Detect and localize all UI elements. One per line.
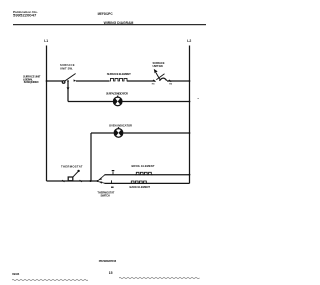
wire indicator tap drop xyxy=(67,81,69,102)
pin H2 tick xyxy=(169,80,172,82)
wire surface indicator row right xyxy=(122,101,190,103)
switch surface unit sw (right) blade with arrowhead xyxy=(156,73,160,80)
switch surface unit sw (right) crossing blade xyxy=(156,74,164,80)
svg-text:SURFACE: SURFACE xyxy=(60,63,75,67)
svg-text:BAKE ELEMENT: BAKE ELEMENT xyxy=(130,185,151,189)
wire oven indicator drop to thermostat row xyxy=(90,133,92,181)
svg-text:OVEN INDICATOR: OVEN INDICATOR xyxy=(109,123,132,127)
junction at L1 and surface row xyxy=(46,80,48,82)
stray scan speck xyxy=(197,97,199,100)
wire surface row right segment xyxy=(167,80,190,82)
selector switch bake contact arrowhead xyxy=(99,182,102,184)
junction oven indicator at L2 xyxy=(189,132,191,134)
pin tick bake xyxy=(111,180,113,183)
switch surface unit sw (left) label xyxy=(60,63,75,70)
switch surface unit sw (right) label xyxy=(153,61,165,68)
svg-text:SURFACE INDICATOR: SURFACE INDICATOR xyxy=(106,92,128,96)
svg-text:P/N 5950227158: P/N 5950227158 xyxy=(99,259,117,263)
switch surface unit sw (right) cycling arc xyxy=(160,78,167,81)
footer right squiggle line xyxy=(119,277,200,280)
wire L2 bus vertical xyxy=(189,46,191,184)
junction surface indicator at L2 xyxy=(189,101,191,103)
svg-text:L2: L2 xyxy=(187,39,191,43)
thermostat blade xyxy=(73,172,78,178)
svg-text:UNIT SW.: UNIT SW. xyxy=(60,66,73,70)
svg-text:THERMOSTAT: THERMOSTAT xyxy=(61,165,83,169)
junction selector common xyxy=(97,180,99,182)
wire surface row segment to right switch xyxy=(127,80,155,82)
selector switch bake contact blade xyxy=(98,182,105,184)
note label: surface unit and signal xyxy=(23,74,41,84)
resistor broil element xyxy=(135,172,153,174)
switch surface unit sw (left) terminal circle xyxy=(62,81,65,84)
wire L1 bus vertical xyxy=(46,46,48,182)
wire main surface row left segment xyxy=(47,80,63,82)
wire broil row xyxy=(105,174,190,176)
resistor bake element xyxy=(130,181,148,183)
pin tick broil xyxy=(112,172,114,175)
wire bake row xyxy=(105,182,190,184)
svg-text:15: 15 xyxy=(109,271,113,275)
wire surface indicator row left xyxy=(68,101,113,103)
pin H1 tick xyxy=(153,80,156,82)
switch surface unit sw (left) blade xyxy=(65,74,76,82)
thermostat body square xyxy=(68,177,73,181)
thermostat blade tip dot xyxy=(77,170,79,172)
junction at indicator tap xyxy=(67,80,69,82)
resistor surface element xyxy=(109,78,129,81)
pin label bake xyxy=(111,187,114,188)
svg-text:SWITCH: SWITCH xyxy=(101,193,110,197)
lamp oven indicator xyxy=(114,129,123,138)
selector switch broil contact arrowhead xyxy=(99,178,103,181)
svg-text:MEF302PC: MEF302PC xyxy=(98,12,114,16)
thermostat left terminal tick xyxy=(62,180,65,182)
wire oven indicator row left xyxy=(91,132,114,134)
selector switch broil contact blade xyxy=(98,175,105,181)
junction oven indicator drop on thermostat row xyxy=(90,180,92,182)
svg-text:UNIT SW.: UNIT SW. xyxy=(153,64,164,68)
wire thermostat row from L1 xyxy=(47,180,98,182)
publication number header text xyxy=(13,10,38,18)
svg-text:BROIL ELEMENT: BROIL ELEMENT xyxy=(132,164,155,168)
svg-text:5995220047: 5995220047 xyxy=(13,14,36,18)
header rule xyxy=(13,24,206,25)
switch surface unit sw (left) right terminal arrow xyxy=(74,79,77,81)
footer left squiggle line xyxy=(12,279,88,282)
contact arrow on indicator tap xyxy=(67,87,70,90)
svg-text:IS REQUIRED: IS REQUIRED xyxy=(24,80,39,84)
wire surface row middle segment xyxy=(76,80,109,82)
junction surface row at L2 xyxy=(189,80,191,82)
wire oven indicator row right xyxy=(123,132,190,134)
svg-text:L1: L1 xyxy=(44,39,48,43)
svg-text:09/96: 09/96 xyxy=(12,272,20,276)
lamp surface indicator xyxy=(113,97,122,106)
thermostat right terminal tick xyxy=(80,180,83,182)
svg-text:SURFACE ELEMENT: SURFACE ELEMENT xyxy=(107,72,131,76)
selector switch label xyxy=(97,190,114,197)
pin label broil xyxy=(112,170,115,171)
junction broil row at L2 xyxy=(189,174,191,176)
